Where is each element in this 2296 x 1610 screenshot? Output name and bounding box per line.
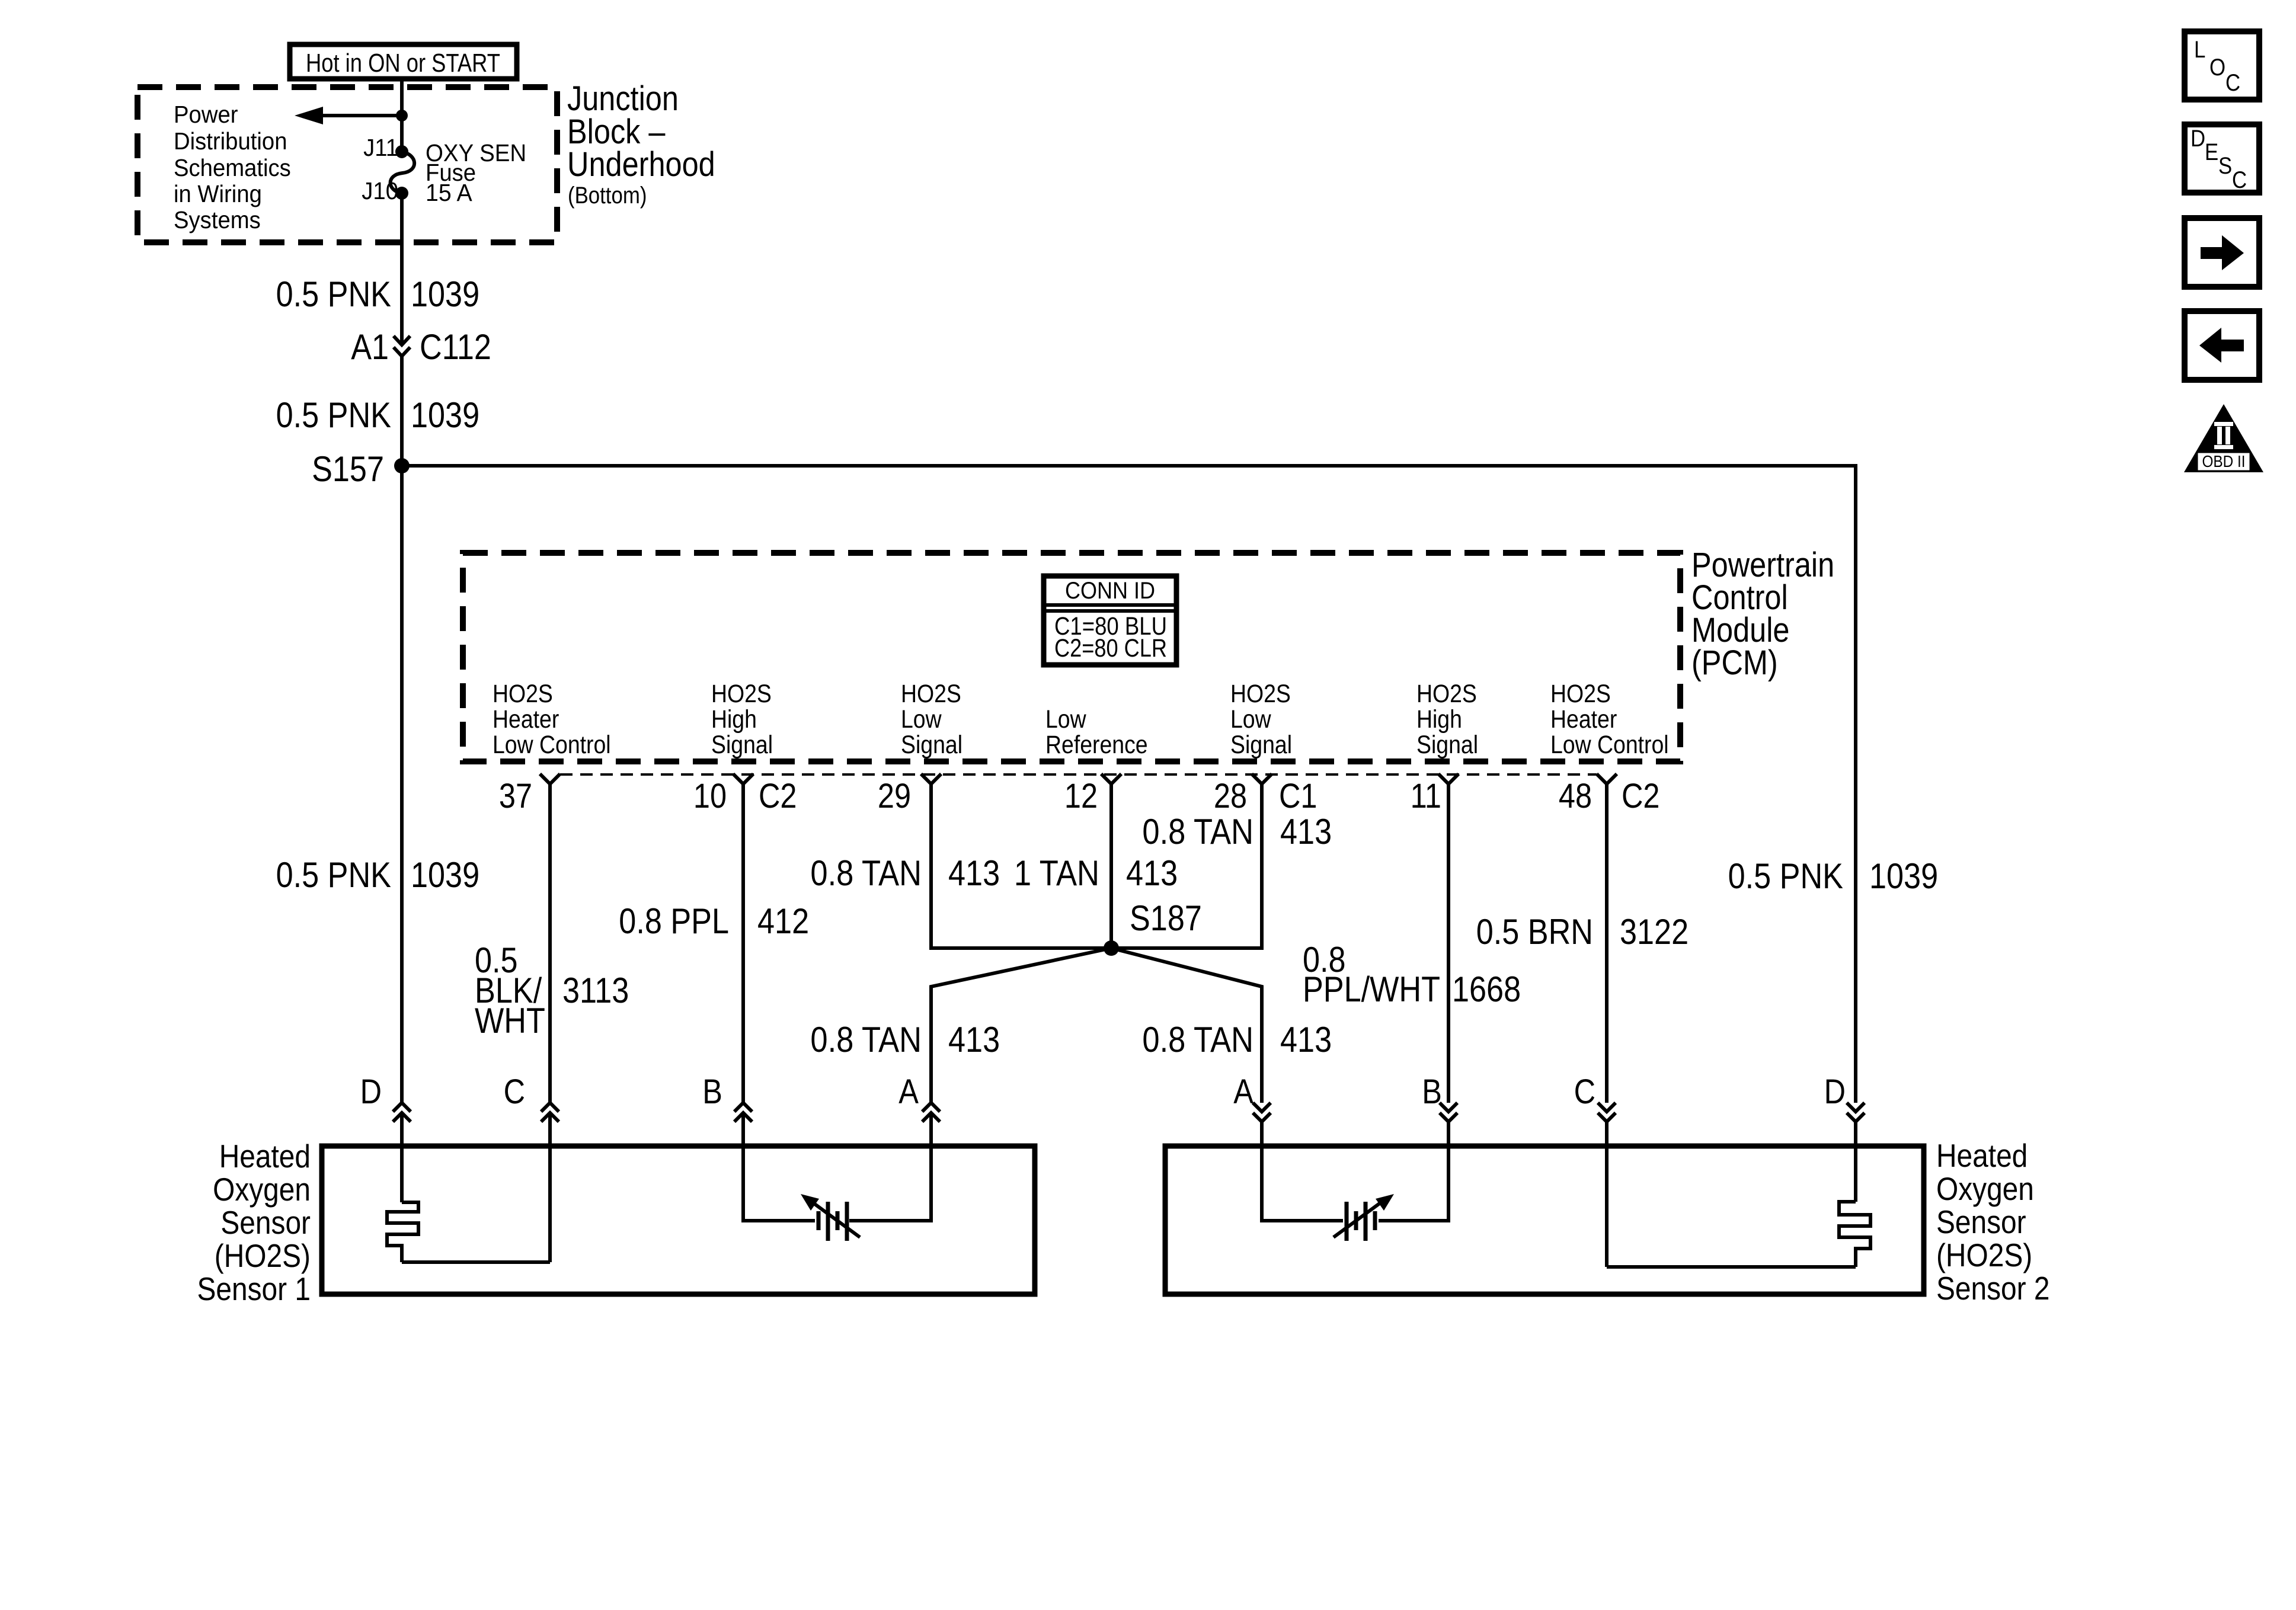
svg-text:(HO2S): (HO2S): [1936, 1237, 2032, 1273]
svg-text:0.8 TAN: 0.8 TAN: [810, 1020, 922, 1060]
wire S157 down to sensor 1 pin D: [400, 466, 404, 1103]
svg-text:High: High: [711, 705, 757, 734]
svg-text:48: 48: [1559, 777, 1592, 815]
svg-text:Sensor 2: Sensor 2: [1936, 1270, 2050, 1307]
svg-text:O: O: [2209, 55, 2225, 81]
pin 28 fork: [1252, 774, 1272, 784]
junction block label: [567, 79, 715, 209]
svg-text:B: B: [702, 1073, 722, 1111]
junction block dashed box: [137, 87, 557, 242]
svg-text:12: 12: [1064, 777, 1098, 815]
svg-text:C112: C112: [420, 327, 491, 367]
svg-text:0.8 TAN: 0.8 TAN: [810, 853, 922, 893]
Hot in ON or START box: [290, 44, 517, 79]
pin 48 fork: [1597, 774, 1617, 784]
svg-text:Heater: Heater: [1550, 705, 1617, 734]
pin 12 fork: [1101, 774, 1121, 784]
svg-text:Heated: Heated: [1936, 1137, 2028, 1174]
svg-text:1 TAN: 1 TAN: [1014, 853, 1099, 893]
sensor1 cell wires: [743, 1113, 815, 1221]
PCM pin function labels: [493, 680, 611, 759]
svg-text:1039: 1039: [411, 274, 479, 314]
sensor2 pin A connector: [1233, 1073, 1271, 1122]
svg-text:Underhood: Underhood: [567, 145, 715, 184]
svg-text:HO2S: HO2S: [1550, 680, 1611, 708]
sensor2 pin D connector: [1824, 1073, 1865, 1122]
svg-text:HO2S: HO2S: [493, 680, 553, 708]
DESC icon: [2185, 124, 2259, 193]
sensor1 pin D connector: [360, 1073, 411, 1122]
svg-text:Low: Low: [1230, 705, 1271, 734]
svg-text:HO2S: HO2S: [1416, 680, 1477, 708]
svg-text:A: A: [1233, 1073, 1253, 1111]
sensor2 sensing cell (variable battery): [1334, 1194, 1394, 1241]
sensor1 pin A connector: [898, 1073, 940, 1122]
wire label 0.5 BLK/WHT 3113: [475, 940, 629, 1041]
wire pin 37 to sensor1 pin C: [548, 784, 552, 1103]
svg-text:C1: C1: [1279, 777, 1318, 815]
svg-text:A: A: [898, 1073, 919, 1111]
svg-text:Sensor: Sensor: [220, 1204, 311, 1241]
wire label 0.5 BRN 3122: [1476, 912, 1689, 952]
svg-text:Low: Low: [1045, 705, 1086, 734]
svg-text:C: C: [2232, 167, 2247, 193]
sensor2 pin B connector: [1422, 1073, 1457, 1122]
svg-text:Signal: Signal: [1230, 731, 1292, 759]
wire label 0.8 TAN 413: [810, 853, 1000, 893]
svg-text:Sensor 1: Sensor 1: [197, 1270, 311, 1307]
wire C112 down to S157: [400, 356, 404, 466]
wire heater to pin C (sensor2): [1607, 1265, 1856, 1269]
svg-text:10: 10: [693, 777, 727, 815]
sensor1 box: [322, 1146, 1035, 1294]
svg-text:0.8 TAN: 0.8 TAN: [1142, 1020, 1253, 1060]
sensor1 sensing cell (variable battery): [801, 1194, 860, 1241]
svg-text:L: L: [2194, 37, 2205, 63]
svg-text:(PCM): (PCM): [1691, 644, 1778, 682]
svg-text:1039: 1039: [411, 395, 479, 435]
svg-text:0.5 PNK: 0.5 PNK: [1728, 856, 1843, 896]
sensor1 label: [197, 1138, 311, 1307]
PCM connector thin dashed line: [560, 773, 1597, 776]
svg-text:D: D: [2191, 126, 2205, 152]
wire label 1 TAN 413: [1014, 853, 1178, 893]
svg-text:Heated: Heated: [219, 1138, 311, 1174]
svg-text:29: 29: [878, 777, 911, 815]
svg-text:1039: 1039: [1869, 856, 1938, 896]
svg-text:3113: 3113: [562, 971, 629, 1010]
svg-text:D: D: [1824, 1073, 1846, 1111]
svg-text:Power: Power: [174, 101, 238, 128]
svg-text:15 A: 15 A: [426, 179, 472, 206]
svg-text:1668: 1668: [1452, 969, 1521, 1009]
svg-text:Reference: Reference: [1045, 731, 1148, 759]
svg-text:Signal: Signal: [901, 731, 962, 759]
wire pin 10 to sensor1 pin B: [741, 784, 745, 1103]
wire S187 diagonal to sensor2 pin A: [1111, 948, 1262, 1103]
svg-text:Hot in ON or START: Hot in ON or START: [306, 49, 500, 78]
svg-text:37: 37: [499, 777, 532, 815]
svg-text:Low: Low: [901, 705, 942, 734]
svg-text:Sensor: Sensor: [1936, 1204, 2026, 1240]
wire pin 29 to splice S187: [931, 784, 1111, 948]
svg-text:D: D: [360, 1073, 382, 1111]
svg-text:J11: J11: [363, 134, 398, 161]
sensor2 heater element: [1839, 1122, 1870, 1267]
wire label 0.8 TAN 413: [810, 1020, 1000, 1060]
wire label 0.5 PNK 1039: [276, 274, 480, 314]
svg-text:WHT: WHT: [475, 1001, 545, 1041]
svg-text:Oxygen: Oxygen: [1936, 1170, 2034, 1207]
wire from hot box to fuse J11: [400, 79, 404, 152]
svg-text:Signal: Signal: [1416, 731, 1478, 759]
svg-text:PPL/WHT: PPL/WHT: [1303, 969, 1440, 1009]
power distribution note: [174, 101, 291, 233]
forward arrow icon: [2185, 218, 2259, 287]
back arrow icon: [2185, 311, 2259, 380]
svg-text:Schematics: Schematics: [174, 154, 291, 181]
svg-text:C2: C2: [1622, 777, 1660, 815]
svg-text:C: C: [1574, 1073, 1595, 1111]
svg-text:Distribution: Distribution: [174, 127, 287, 155]
svg-text:A1: A1: [351, 327, 389, 367]
pin 37 fork: [540, 774, 560, 784]
svg-text:1039: 1039: [411, 855, 479, 895]
wire pin 28 to splice S187: [1111, 784, 1262, 948]
svg-text:OBD II: OBD II: [2202, 452, 2245, 470]
svg-text:in Wiring: in Wiring: [174, 180, 262, 207]
svg-text:412: 412: [757, 901, 809, 941]
wire S157 to right branch: [402, 466, 1856, 1103]
sensor2 pin C connector: [1574, 1073, 1616, 1122]
PCM label: [1691, 546, 1834, 682]
wire label 0.8 TAN 413: [1142, 1020, 1332, 1060]
power distribution arrow: [295, 107, 408, 124]
svg-text:S157: S157: [312, 449, 384, 489]
svg-text:28: 28: [1214, 777, 1247, 815]
svg-text:S: S: [2218, 153, 2232, 179]
svg-text:E: E: [2205, 139, 2218, 165]
sensor1 pin B connector: [702, 1073, 752, 1122]
svg-text:Low Control: Low Control: [1550, 731, 1669, 759]
svg-text:C2=80 CLR: C2=80 CLR: [1054, 634, 1167, 662]
svg-text:3122: 3122: [1620, 912, 1689, 952]
svg-text:C2: C2: [759, 777, 797, 815]
wire label 0.5 PNK 1039 (right): [1728, 856, 1939, 896]
svg-text:Heater: Heater: [493, 705, 559, 734]
svg-text:Systems: Systems: [174, 206, 261, 233]
sensor2 cell wires: [1262, 1122, 1343, 1221]
PCM dashed box: [463, 553, 1680, 761]
svg-text:Low Control: Low Control: [493, 731, 611, 759]
svg-text:413: 413: [948, 853, 1000, 893]
svg-text:(HO2S): (HO2S): [215, 1237, 311, 1274]
wire label 0.8 PPL 412: [619, 901, 809, 941]
connector A1 C112: [351, 327, 491, 367]
OBD II icon: [2184, 404, 2263, 472]
svg-text:Oxygen: Oxygen: [213, 1171, 311, 1208]
svg-text:11: 11: [1411, 777, 1441, 815]
wire label 0.8 TAN 413: [1142, 812, 1332, 852]
wire heater to pin C: [402, 1260, 550, 1264]
wire pin 11 to sensor2 pin B: [1447, 784, 1450, 1103]
wire pin 12 to splice S187: [1109, 784, 1113, 948]
splice node S157: [312, 449, 410, 489]
sensor1 heater element: [387, 1113, 418, 1262]
svg-text:413: 413: [948, 1020, 1000, 1060]
wire J10 down to connector C112: [400, 193, 404, 343]
svg-text:J10: J10: [362, 177, 398, 204]
wire label 0.5 PNK 1039: [276, 395, 480, 435]
svg-text:413: 413: [1280, 1020, 1332, 1060]
svg-text:HO2S: HO2S: [901, 680, 961, 708]
svg-text:0.5 PNK: 0.5 PNK: [276, 274, 391, 314]
sensor2 label: [1936, 1137, 2050, 1307]
svg-text:0.8 TAN: 0.8 TAN: [1142, 812, 1253, 852]
sensor2 box: [1165, 1146, 1924, 1294]
svg-text:(Bottom): (Bottom): [568, 183, 647, 209]
svg-text:C: C: [2225, 70, 2240, 96]
svg-text:High: High: [1416, 705, 1462, 734]
pin 29 fork: [921, 774, 941, 784]
svg-text:C: C: [504, 1073, 525, 1111]
svg-text:HO2S: HO2S: [711, 680, 772, 708]
CONN ID table: [1044, 576, 1176, 665]
node J11: [395, 145, 408, 158]
svg-text:HO2S: HO2S: [1230, 680, 1291, 708]
wire S187 diagonal to sensor1 pin A: [931, 948, 1111, 1103]
node J10: [395, 187, 408, 200]
svg-text:0.5 BRN: 0.5 BRN: [1476, 912, 1593, 952]
svg-text:0.5 PNK: 0.5 PNK: [276, 855, 391, 895]
LOC icon: [2185, 31, 2259, 100]
splice node S187: [1104, 898, 1202, 956]
svg-text:0.8 PPL: 0.8 PPL: [619, 901, 729, 941]
svg-text:Signal: Signal: [711, 731, 773, 759]
svg-text:0.5 PNK: 0.5 PNK: [276, 395, 391, 435]
pin 11 fork: [1438, 774, 1459, 784]
fuse OXY SEN 15A: [391, 139, 527, 206]
svg-text:413: 413: [1126, 853, 1178, 893]
svg-text:S187: S187: [1130, 898, 1202, 938]
wire label 0.5 PNK 1039 (left): [276, 855, 480, 895]
svg-text:CONN ID: CONN ID: [1065, 578, 1155, 604]
wire pin 48 to sensor2 pin C: [1605, 784, 1609, 1103]
svg-text:B: B: [1422, 1073, 1442, 1111]
sensor1 pin C connector: [504, 1073, 559, 1122]
pin 10 fork: [733, 774, 753, 784]
wire label 0.8 PPL/WHT 1668: [1303, 940, 1521, 1009]
svg-text:413: 413: [1280, 812, 1332, 852]
